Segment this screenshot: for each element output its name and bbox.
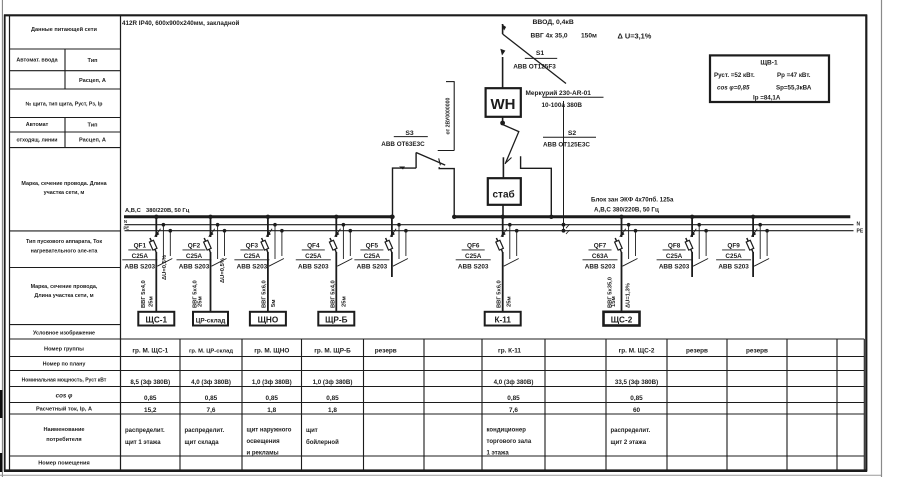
svg-text:Наименование: Наименование (43, 427, 84, 433)
circuit breaker QF6 feeder (501, 215, 505, 219)
svg-text:QF7: QF7 (594, 243, 607, 250)
svg-text:150м: 150м (581, 33, 597, 40)
disconnect switch S1 (503, 34, 566, 84)
load box К-11 (485, 312, 521, 326)
svg-text:ЩВ-1: ЩВ-1 (760, 60, 778, 67)
svg-text:ЩС-1: ЩС-1 (146, 315, 168, 324)
svg-text:QF4: QF4 (307, 243, 320, 250)
svg-text:5м: 5м (271, 299, 277, 307)
svg-text:нагревательного эле-нта: нагревательного эле-нта (31, 249, 99, 255)
parameter table grid (9, 15, 11, 470)
wire: WH to S2 (502, 117, 504, 125)
svg-text:АВВ S203: АВВ S203 (298, 263, 329, 270)
svg-text:PE: PE (857, 229, 864, 235)
svg-text:Блок зан ЭКФ 4х70пб. 125а: Блок зан ЭКФ 4х70пб. 125а (591, 197, 674, 204)
svg-text:25м: 25м (507, 296, 513, 307)
svg-text:отходящ. линии: отходящ. линии (16, 138, 57, 144)
svg-text:Марка, сечение провода,: Марка, сечение провода, (31, 284, 98, 290)
circuit breaker QF7 feeder (619, 215, 623, 219)
svg-text:распределит.: распределит. (611, 428, 651, 434)
svg-text:0,85: 0,85 (507, 395, 520, 402)
svg-text:1,0 (3ф 380В): 1,0 (3ф 380В) (313, 379, 353, 386)
svg-text:cos φ=0,85: cos φ=0,85 (717, 85, 750, 92)
svg-text:QF5: QF5 (366, 243, 379, 250)
svg-text:Номер по плану: Номер по плану (43, 362, 86, 368)
svg-text:380/220В, 50 Гц: 380/220В, 50 Гц (146, 208, 190, 214)
svg-text:АВВ ОТ125F3: АВВ ОТ125F3 (513, 64, 556, 71)
svg-text:QF1: QF1 (134, 243, 147, 250)
svg-text:С25А: С25А (364, 253, 381, 260)
svg-text:QF3: QF3 (246, 243, 259, 250)
svg-text:распределит.: распределит. (125, 428, 165, 434)
disconnect switch S3 (393, 168, 417, 217)
svg-text:0,85: 0,85 (144, 395, 157, 402)
svg-text:ΔU=0,5%: ΔU=0,5% (220, 258, 226, 283)
svg-text:гр. М. ЦР-склад: гр. М. ЦР-склад (189, 349, 233, 355)
svg-text:С25А: С25А (465, 253, 482, 260)
svg-text:АВВ S203: АВВ S203 (179, 263, 210, 270)
svg-text:0,85: 0,85 (326, 395, 339, 402)
svg-text:15м: 15м (611, 296, 617, 307)
svg-text:Длина участка сети, м: Длина участка сети, м (34, 293, 93, 299)
wire: incoming line (502, 24, 504, 34)
svg-text:cos φ: cos φ (56, 393, 73, 400)
svg-text:Меркурий 230-AR-01: Меркурий 230-AR-01 (526, 89, 592, 97)
circuit breaker QF4 feeder (334, 215, 338, 219)
wire: stab to bus (502, 205, 504, 217)
load box ЦР-склад (193, 312, 228, 326)
sheet frame (1, 0, 3, 477)
svg-text:Iр =84,1А: Iр =84,1А (753, 95, 781, 102)
svg-text:QF8: QF8 (668, 243, 681, 250)
svg-text:ВВГ 5х4,0: ВВГ 5х4,0 (330, 280, 336, 308)
svg-text:щит 1 этажа: щит 1 этажа (125, 440, 161, 446)
svg-text:АВВ ОТ63Е3С: АВВ ОТ63Е3С (381, 141, 425, 148)
svg-text:С25А: С25А (132, 253, 149, 260)
svg-text:АВВ S203: АВВ S203 (458, 263, 489, 270)
svg-text:Руст. =52 кВт.: Руст. =52 кВт. (714, 72, 755, 79)
svg-text:С25А: С25А (305, 253, 322, 260)
svg-text:гр. М. ЩС-1: гр. М. ЩС-1 (132, 348, 168, 355)
svg-text:0,85: 0,85 (266, 395, 279, 402)
svg-text:ВВГ 4х 35,0: ВВГ 4х 35,0 (531, 33, 568, 40)
svg-text:С25А: С25А (666, 253, 683, 260)
svg-text:щит 2 этажа: щит 2 этажа (611, 440, 647, 446)
svg-text:7,6: 7,6 (509, 407, 518, 414)
svg-text:0,85: 0,85 (205, 395, 218, 402)
bus: main phase busbar A,B,C right section (454, 215, 851, 218)
svg-text:PE: PE (124, 226, 130, 231)
svg-text:0,85: 0,85 (630, 395, 643, 402)
junction: S2 branch on bus (549, 215, 553, 219)
svg-text:АВВ S203: АВВ S203 (357, 263, 388, 270)
svg-text:1,0 (3ф 380В): 1,0 (3ф 380В) (252, 379, 292, 386)
svg-text:резерв: резерв (686, 348, 708, 355)
svg-text:8,5 (3ф 380В): 8,5 (3ф 380В) (130, 379, 170, 386)
svg-text:Расцеп, А: Расцеп, А (79, 78, 106, 84)
svg-text:ЩР-Б: ЩР-Б (325, 315, 348, 324)
svg-text:Sр=55,3кВА: Sр=55,3кВА (776, 85, 812, 92)
svg-text:А,В,С: А,В,С (125, 208, 142, 214)
svg-text:S3: S3 (405, 130, 414, 137)
svg-text:N: N (124, 219, 127, 224)
svg-text:резерв: резерв (746, 348, 768, 355)
svg-text:АВВ S203: АВВ S203 (718, 263, 749, 270)
svg-text:ЩС-2: ЩС-2 (611, 315, 633, 324)
svg-text:бойлерной: бойлерной (306, 439, 339, 446)
svg-text:ЩНО: ЩНО (258, 315, 279, 324)
svg-text:25м: 25м (341, 296, 347, 307)
svg-text:1,8: 1,8 (328, 407, 337, 414)
svg-text:ΔU=0,5%: ΔU=0,5% (162, 255, 168, 280)
svg-text:АВВ S203: АВВ S203 (237, 263, 268, 270)
svg-text:Тип: Тип (87, 58, 97, 64)
svg-text:Номер группы: Номер группы (44, 347, 84, 353)
svg-text:25м: 25м (198, 296, 204, 307)
svg-text:1,8: 1,8 (267, 407, 276, 414)
svg-text:Автомат: Автомат (26, 122, 49, 128)
load box ЩС-2 (604, 312, 640, 326)
circuit breaker QF1 feeder (154, 215, 158, 219)
svg-text:ВВГ 5х6,0: ВВГ 5х6,0 (261, 280, 267, 308)
svg-text:25м: 25м (148, 296, 154, 307)
svg-text:№ щита, тип щита, Руст, Рз, Iр: № щита, тип щита, Руст, Рз, Iр (26, 102, 103, 108)
svg-text:гр. М. ЩНО: гр. М. ЩНО (254, 348, 289, 355)
svg-text:АВВ S203: АВВ S203 (125, 263, 156, 270)
svg-text:Номер помещения: Номер помещения (38, 461, 90, 467)
svg-text:4,0 (3ф 380В): 4,0 (3ф 380В) (191, 379, 231, 386)
svg-text:АВВ S203: АВВ S203 (585, 263, 616, 270)
svg-text:Расцеп, А: Расцеп, А (79, 138, 106, 144)
svg-text:гр. М. ЩР-Б: гр. М. ЩР-Б (314, 348, 351, 355)
svg-text:Δ U=3,1%: Δ U=3,1% (618, 32, 652, 41)
svg-text:и рекламы: и рекламы (247, 451, 279, 457)
svg-text:резерв: резерв (375, 348, 397, 355)
circuit breaker QF5 feeder (390, 215, 394, 219)
svg-text:4,0 (3ф 380В): 4,0 (3ф 380В) (494, 379, 534, 386)
svg-text:N: N (857, 222, 861, 228)
svg-text:С25А: С25А (725, 253, 742, 260)
svg-text:1 этажа: 1 этажа (487, 451, 510, 457)
svg-text:WH: WH (491, 96, 516, 113)
svg-text:кондиционер: кондиционер (487, 428, 527, 434)
svg-text:участка сети, м: участка сети, м (44, 190, 85, 196)
switch S2 (503, 125, 519, 164)
svg-text:С63А: С63А (592, 253, 609, 260)
svg-text:ЦР-склад: ЦР-склад (196, 317, 226, 324)
svg-text:АВВ ОТ125Е3С: АВВ ОТ125Е3С (543, 142, 590, 149)
wire: meter N conductor (563, 101, 565, 231)
wire: bypass leader (453, 82, 455, 151)
svg-text:Номинальная мощность, Руст кВт: Номинальная мощность, Руст кВт (22, 378, 107, 384)
svg-text:АВВ S203: АВВ S203 (659, 263, 690, 270)
svg-text:ВВГ 5х6,0: ВВГ 5х6,0 (497, 280, 503, 308)
svg-text:412R IP40, 600х900х240мм, закл: 412R IP40, 600х900х240мм, закладной (122, 19, 240, 27)
circuit breaker QF3 feeder (266, 215, 270, 219)
svg-text:от 2ВУ0000000: от 2ВУ0000000 (446, 97, 452, 134)
circuit breaker QF8 feeder (690, 215, 694, 219)
svg-text:С25А: С25А (186, 253, 203, 260)
panel data box ЩВ-1 (710, 55, 829, 102)
svg-text:Расчетный ток, Iр, А: Расчетный ток, Iр, А (36, 406, 92, 413)
svg-text:Данные питающей сети: Данные питающей сети (31, 26, 97, 33)
svg-text:А,В,С 380/220В, 50 Гц: А,В,С 380/220В, 50 Гц (594, 207, 659, 214)
wire: PE busbar (125, 230, 854, 232)
svg-text:щит: щит (306, 428, 318, 434)
svg-text:потребителя: потребителя (46, 436, 81, 443)
svg-text:распределит.: распределит. (185, 428, 225, 434)
svg-text:QF2: QF2 (188, 243, 201, 250)
svg-text:гр. К-11: гр. К-11 (498, 348, 521, 355)
svg-text:S1: S1 (536, 50, 545, 57)
svg-text:QF9: QF9 (727, 243, 740, 250)
svg-text:60: 60 (633, 407, 641, 414)
svg-text:С25А: С25А (244, 253, 261, 260)
circuit breaker QF9 feeder (751, 215, 755, 219)
bus: main phase busbar A,B,C left section (124, 215, 394, 218)
svg-text:гр. М. ЩС-2: гр. М. ЩС-2 (619, 348, 655, 355)
svg-text:Марка, сечение провода. Длина: Марка, сечение провода. Длина (21, 181, 107, 187)
svg-text:щит склада: щит склада (185, 440, 220, 446)
junction: S3 branches on bus (452, 215, 456, 219)
load box ЩНО (250, 312, 286, 326)
svg-text:S2: S2 (568, 130, 577, 137)
svg-text:15,2: 15,2 (144, 407, 157, 414)
svg-text:освещения: освещения (247, 439, 281, 445)
svg-text:ВВГ 5х4,0: ВВГ 5х4,0 (141, 280, 147, 308)
svg-text:стаб: стаб (492, 189, 514, 201)
stabilizer unit (488, 178, 521, 205)
svg-text:Тип пускового аппарата, Ток: Тип пускового аппарата, Ток (26, 239, 102, 245)
svg-text:ВВОД, 0,4кВ: ВВОД, 0,4кВ (533, 19, 574, 26)
svg-text:щит наружного: щит наружного (247, 428, 292, 434)
svg-text:Автомат. ввода: Автомат. ввода (16, 58, 58, 64)
load box ЩР-Б (318, 312, 354, 326)
svg-text:Рр =47 кВт.: Рр =47 кВт. (777, 72, 811, 79)
svg-text:QF6: QF6 (467, 243, 480, 250)
wire: N busbar (125, 224, 854, 226)
svg-text:К-11: К-11 (495, 315, 512, 324)
circuit breaker QF2 feeder (208, 215, 212, 219)
load box ЩС-1 (138, 312, 174, 326)
energy meter WH (486, 88, 521, 117)
svg-text:Тип: Тип (87, 123, 97, 129)
svg-text:33,5 (3ф 380В): 33,5 (3ф 380В) (615, 379, 658, 386)
svg-text:ΔU=1,3%: ΔU=1,3% (626, 283, 632, 308)
svg-text:10-100а 380В: 10-100а 380В (542, 102, 583, 109)
svg-text:7,6: 7,6 (207, 407, 216, 414)
svg-text:торгового зала: торгового зала (487, 439, 532, 445)
svg-text:Условное изображение: Условное изображение (33, 330, 95, 337)
